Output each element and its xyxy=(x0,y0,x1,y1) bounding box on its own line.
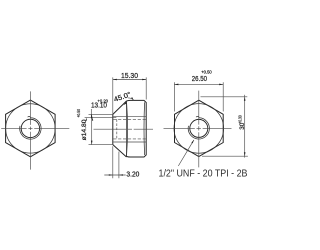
dim 26.50 line xyxy=(174,83,223,85)
svg-text:3.20: 3.20 xyxy=(126,170,139,179)
svg-text:+0.20: +0.20 xyxy=(98,98,109,103)
left view vertical centerline xyxy=(29,91,31,169)
left view horizontal centerline xyxy=(1,127,69,129)
middle view body outline xyxy=(127,100,147,157)
dim 30 line xyxy=(244,95,246,158)
dim 45 leader arrow xyxy=(124,102,127,105)
svg-text:1/2" UNF - 20 TPI - 2B: 1/2" UNF - 20 TPI - 2B xyxy=(159,168,248,179)
thread minor circle xyxy=(190,119,208,137)
thread major arc xyxy=(188,118,209,139)
middle view facet arc xyxy=(127,101,128,156)
middle view hidden thread top xyxy=(113,118,146,120)
middle view right facet line xyxy=(143,102,146,155)
dim 30 extension lines xyxy=(201,97,248,156)
svg-text:45.0°: 45.0° xyxy=(113,90,132,103)
svg-text:15.30: 15.30 xyxy=(121,71,138,80)
svg-text:ø14.80: ø14.80 xyxy=(81,119,88,140)
dim dia14.80 line xyxy=(91,114,93,144)
thread major arc xyxy=(20,118,41,139)
thread arc end hook xyxy=(196,116,199,117)
svg-text:+0.50: +0.50 xyxy=(76,109,81,118)
middle view centerline xyxy=(94,128,154,130)
svg-text:26.50: 26.50 xyxy=(192,74,207,83)
right view hex nut outline xyxy=(175,100,224,156)
dim dia14.80 extension lines xyxy=(89,114,113,144)
middle view top chamfer cone xyxy=(113,101,127,114)
thread callout leader xyxy=(178,140,194,166)
dim 15.30 extension lines xyxy=(113,77,146,114)
thread minor circle xyxy=(21,119,39,137)
right view chamfer circle xyxy=(174,104,224,154)
dim 3.20 line xyxy=(104,174,125,176)
middle view hidden washer vertical xyxy=(116,119,118,139)
middle view bottom chamfer cone xyxy=(113,145,127,157)
dim 13.10 leader xyxy=(85,109,117,117)
middle view prism edge bottom xyxy=(113,141,146,143)
left view hex nut outline xyxy=(6,100,56,157)
left view chamfer circle xyxy=(6,104,55,153)
dim 3.20 extension lines xyxy=(113,146,119,178)
dim 45 arc xyxy=(128,98,134,100)
thread arc end hook xyxy=(28,116,31,117)
dim 15.30 line xyxy=(113,79,146,81)
svg-text:+0.30: +0.30 xyxy=(238,115,243,124)
dim 26.50 extension lines xyxy=(174,82,223,111)
right view vertical centerline xyxy=(198,91,200,168)
svg-text:+0.50: +0.50 xyxy=(201,70,212,75)
middle view hex junction line xyxy=(126,101,128,157)
middle view hidden thread bottom xyxy=(113,138,146,140)
middle view face edge xyxy=(112,114,114,144)
middle view prism edge top xyxy=(113,115,146,117)
right view horizontal centerline xyxy=(164,127,232,129)
